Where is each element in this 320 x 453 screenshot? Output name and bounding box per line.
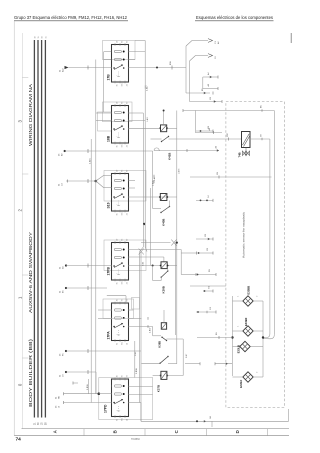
relay 17PA left stubs [98,310,112,318]
power bus wire 3 [41,40,43,418]
ruler tick 1 [22,77,28,79]
wire relay 17PD row1 right [129,386,153,388]
relay 17B [106,41,128,87]
feed wire to relay 17PB [60,264,112,270]
svg-text:30: 30 [117,375,119,377]
svg-text:K38B: K38B [158,341,162,348]
svg-text:87a: 87a [122,281,124,284]
feed wire stub lower [60,286,108,293]
relay S19 [106,170,128,216]
wire vertical mid A [176,111,178,243]
svg-text:86: 86 [122,299,124,301]
svg-text:87: 87 [127,239,129,241]
svg-text:87a: 87a [122,418,124,421]
valve T4B [238,132,251,158]
relay 17PA right wires [129,310,153,327]
svg-text:31: 31 [127,343,129,345]
svg-text:2: 2 [257,296,259,297]
wire K41B branch to connector arrow [154,145,219,152]
connector stub y131 [196,125,213,132]
svg-text:1: 1 [238,326,240,327]
wire vertical pair right of 17PB [174,243,176,335]
svg-text:30: 30 [34,36,36,38]
svg-text:S19: S19 [106,202,110,208]
K41B switch contact [162,137,169,142]
connector stub row y101 into dashed box [190,96,223,103]
wire vertical mid long [140,252,142,422]
svg-text:86: 86 [122,41,124,43]
wire vertical mid B [176,243,178,364]
header right title [195,15,274,21]
K38B switch contact [153,327,184,353]
svg-text:30: 30 [117,239,119,241]
svg-text:86: 86 [122,375,124,377]
wire relay 17PD switch down to bottom wire [129,403,142,422]
relay 18B [106,102,128,148]
connector stub y274 [181,268,216,276]
wire to K41B switch [151,138,162,140]
relay 17PA [106,299,128,345]
wire vertical x139 lower [139,252,141,403]
section tick top right [290,33,292,43]
svg-text:1-B38: 1-B38 [136,368,138,374]
svg-text:87a: 87a [122,212,124,215]
svg-text:31: 31 [45,36,47,38]
page frame bottom border [14,435,289,437]
svg-text:17PA: 17PA [106,331,110,340]
svg-text:30: 30 [117,299,119,301]
wire relay 17PB switch through K39B [129,265,177,281]
ruler tick 2 [22,173,28,175]
svg-text:T4B: T4B [238,152,242,157]
wire corner into lamp rail right outer [263,335,274,339]
connector stub y312 [196,306,216,313]
feed wire to junction [60,370,97,377]
wire K41B to valve T4B [169,132,242,141]
wire relay 17B pin30 right [129,41,149,225]
connector arrow out 2 [190,54,218,102]
svg-text:85: 85 [117,84,119,86]
crossover junction X2 [171,240,178,246]
enclosure box around relay 17PA [103,299,134,319]
svg-text:31: 31 [127,282,129,284]
svg-text:E33BB: E33BB [247,286,251,295]
wire vertical junction to 17PD [95,372,97,394]
feed wire to relay 17PD node [56,392,112,399]
svg-text:17PD: 17PD [104,404,108,413]
svg-text:1-A17: 1-A17 [146,85,149,91]
feed wire to relay 18B [59,149,153,156]
svg-text:85: 85 [117,419,119,421]
lamp E33BB [233,286,264,306]
wire relay 17B pin87 right short [129,59,136,61]
wire horizontal above 17PB [141,242,171,244]
valve K40B [159,194,168,227]
svg-text:31: 31 [127,419,129,421]
relay 17PB [106,239,128,285]
svg-text:17PB: 17PB [106,266,110,275]
svg-text:87: 87 [127,299,129,301]
wire relay 18B left stubs [96,113,112,121]
connector stub row y88 [203,83,218,90]
band divider 1 [83,429,85,436]
svg-text:74: 74 [16,436,22,442]
svg-text:86: 86 [122,239,124,241]
svg-text:87a: 87a [122,83,124,86]
power bus wire 2 [37,40,39,418]
svg-text:Esquemas eléctricos de los com: Esquemas eléctricos de los componentes [196,15,274,20]
svg-text:30: 30 [117,170,119,172]
svg-text:87a: 87a [122,144,124,147]
wire label ticks mid column [153,175,155,186]
wire into lamp rail left [197,332,233,339]
svg-text:D: D [235,430,240,433]
svg-text:31: 31 [127,84,129,86]
wire relay S19 pins right short [129,181,136,189]
svg-text:86: 86 [122,170,124,172]
band divider 3 [206,429,208,436]
svg-text:1-A16: 1-A16 [89,158,92,164]
dashed harness boundary box [226,102,284,408]
connector arrow out 1 [186,39,220,93]
K37B switch contact [142,356,177,364]
feed wire node to relay S19 [59,176,112,188]
feed stub short [72,382,74,385]
lamp E33LF [233,372,264,388]
svg-text:85: 85 [117,145,119,147]
feed wire to relay 17PD switch [56,401,112,408]
connector stub row y93 [186,88,213,95]
svg-text:17B: 17B [106,74,110,81]
svg-text:85: 85 [117,282,119,284]
connector stub y200 [196,194,213,201]
connector stub y253 [181,247,213,255]
power bus wire 4 [44,40,46,418]
connector stub y363 double [185,362,232,365]
header left title [14,15,128,21]
K39B switch contact [153,269,169,281]
connector stub row y77 [203,72,218,89]
svg-text:K40B: K40B [161,219,165,226]
wire corner into lamp rail right inner [263,334,270,338]
wire long y177 [190,171,272,178]
svg-text:2: 2 [257,372,259,373]
wire through K41B [129,127,177,129]
page frame left border [13,21,15,436]
wire relay 18B pin down rail B [129,121,146,226]
enclosure box around relay 17B [103,41,136,60]
wire relay 17B pin85 to connector fan [129,60,187,69]
band divider 4 [267,429,269,436]
svg-text:85: 85 [117,213,119,215]
wire 17PA down to 17PD enclosure [135,341,138,378]
svg-text:86: 86 [122,102,124,104]
connector stub y132 [195,111,222,135]
wire vertical to 17PD node [87,379,89,394]
svg-text:87: 87 [127,375,129,377]
ruler tick 4 [22,357,28,359]
svg-text:18B: 18B [106,135,110,142]
wire y110 to rail right [183,105,274,335]
enclosure small right of 17PA [132,298,140,310]
wire vertical left A [89,139,92,403]
svg-text:30: 30 [117,41,119,43]
svg-text:K41B: K41B [168,153,172,160]
svg-text:E33BF: E33BF [244,317,248,326]
feed wire 30 to relay 17B pin [60,66,112,73]
svg-text:BODY BUILDER (BB): BODY BUILDER (BB) [28,338,33,407]
svg-text:Grupo 37 Esquema eléctrico FM9: Grupo 37 Esquema eléctrico FM9, FM12, FH… [14,15,128,20]
connector stub y291 [203,285,213,292]
wire crossing y286 [190,285,226,287]
svg-text:E33LF: E33LF [239,379,243,387]
wire vertical left B [95,60,97,394]
svg-text:1: 1 [238,296,240,297]
valve K37B [157,371,169,392]
band divider 2 [144,429,146,436]
svg-text:B: B [113,430,118,433]
wire relay 18B pin down rail A [129,113,144,224]
valve K41B [159,125,171,160]
svg-text:31: 31 [127,145,129,147]
misc wire number labels [135,116,258,373]
svg-text:58: 58 [42,36,44,38]
relay 17PD [104,375,129,421]
lamp E33BF [233,317,264,336]
wire rails to relay 17PB pins [140,224,147,252]
reference band top line [22,428,290,430]
svg-text:30: 30 [117,102,119,104]
wire through K37B [153,352,184,376]
wire vertical x150 mid [150,188,152,266]
svg-text:Automatic sensor for swapbody: Automatic sensor for swapbody [243,211,246,258]
ground wire bottom [141,409,289,427]
relay 17B left pin stubs [103,52,111,113]
enclosure box around relay 17PB [104,240,146,271]
wire T4B right to down rail [250,133,270,334]
enclosure box around relay 17PD [99,378,153,420]
feed wire mid swapbody [60,349,142,356]
connector stub y239 [196,233,213,241]
svg-text:TI93860: TI93860 [131,438,140,441]
K40B switch contact [160,201,170,214]
wire relay 17PB row1 to crossover [129,250,182,275]
svg-text:K39B: K39B [161,286,165,293]
wire relay 17PD row2 right [129,393,153,395]
svg-text:87a: 87a [122,342,124,345]
svg-text:AUX5W-6 AND SWAPBODY: AUX5W-6 AND SWAPBODY [28,232,33,313]
svg-text:1-B36: 1-B36 [179,168,181,174]
enclosure box around relay 18B [103,102,133,122]
lamp E33LB [233,341,264,353]
enclosure box around relay S19 [104,171,146,202]
svg-text:31: 31 [127,213,129,215]
enclosure box left of relay 18B [98,112,112,131]
svg-text:85: 85 [117,343,119,345]
lamp rail left [231,296,233,376]
valve K38B [158,310,167,348]
bus labels bottom [34,422,47,425]
svg-text:E33LB: E33LB [236,345,240,353]
svg-text:15: 15 [38,36,40,38]
wire relay 17PB row2 to K39B [129,257,164,262]
svg-text:1-A11: 1-A11 [146,116,149,122]
svg-text:87: 87 [127,41,129,43]
column ruler line [21,33,23,429]
valve K39B [160,262,169,294]
relay 17PA top wire [107,296,126,303]
bus labels top [34,36,47,38]
svg-text:87: 87 [127,170,129,172]
crossover junction X1 [139,249,144,255]
K41B top pin wire [163,110,165,125]
svg-text:K37B: K37B [157,385,161,392]
power bus wire 1 [33,40,35,418]
wire relay S19 switch through K40B [129,151,177,209]
svg-text:WIRING DIAGRAM NA: WIRING DIAGRAM NA [28,83,33,146]
ruler tick 3 [22,274,28,276]
svg-text:87: 87 [127,102,129,104]
wire label ticks near K38B feed [148,317,152,333]
lamp rail right [262,301,264,377]
svg-text:1-B36: 1-B36 [87,384,89,390]
svg-text:1-B37: 1-B37 [150,327,152,333]
